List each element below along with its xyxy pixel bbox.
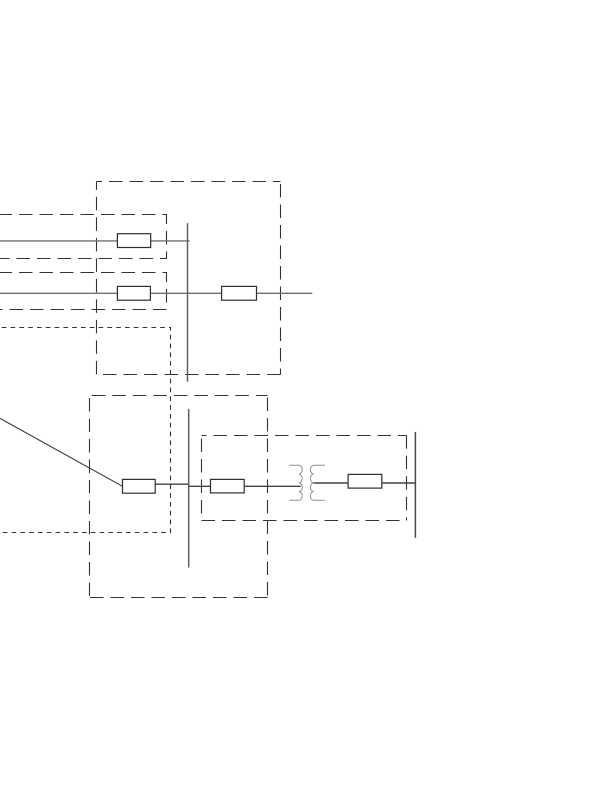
impedance Z6 [348,474,382,488]
wire: diagonal feeder into middle subsystem [0,418,123,486]
zone box feeder 1 (upper-left, long-dash, clipped at left edge) [0,215,167,259]
wire: feeder line 2 [0,292,312,294]
busbar BUS3 [414,432,416,538]
impedance Z4 [123,479,156,493]
impedance Z1 [117,234,150,248]
wire: feeder line 1 [0,240,190,242]
busbar BUS1 [187,223,189,382]
impedance Z3 [222,286,257,300]
zone box C (transformer subsystem, long-dash) [202,436,407,521]
zone box B (middle subsystem, long-dash) [90,396,268,598]
zone box D (fine-dash, clipped at left edge) [0,328,171,533]
busbar BUS2 [188,409,190,568]
zone box A (top subsystem, long-dash) [97,182,281,375]
impedance Z2 [117,286,150,300]
wire: segment busbar BUS2 to transformer primary [188,485,301,487]
wire: secondary side segment [314,482,416,484]
transformer T1 primary winding [289,465,302,500]
wire: segment rect B1 to busbar BUS2 [155,483,190,485]
impedance Z5 [211,479,245,493]
transformer T1 secondary winding [310,465,325,500]
zone box feeder 2 (long-dash, clipped at left edge) [0,273,167,310]
